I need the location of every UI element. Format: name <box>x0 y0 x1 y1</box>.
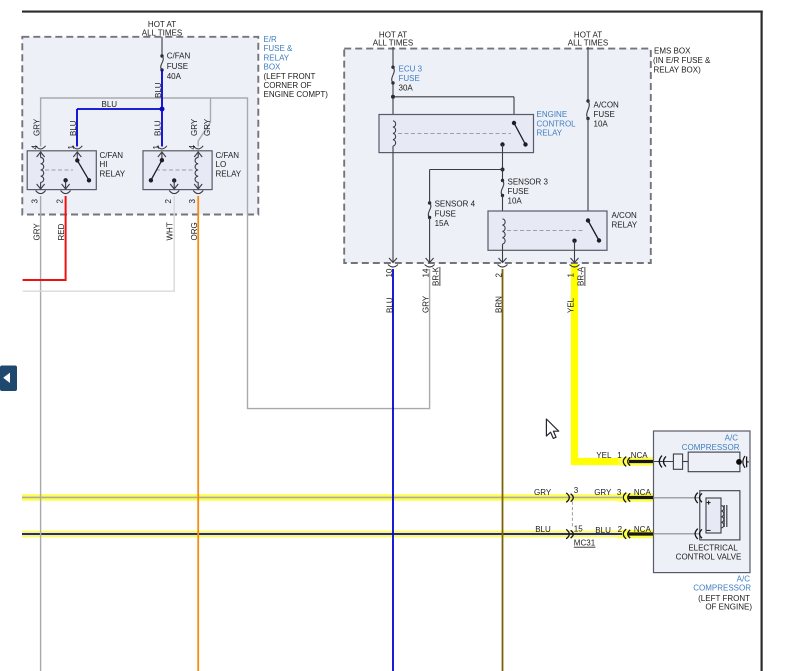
svg-text:ALL TIMES: ALL TIMES <box>142 29 182 38</box>
wire sensor 3 fuse to A/CON relay coil <box>502 196 504 219</box>
GRY net: EMS pin 14 to C/FAN relay coils (wire) <box>41 98 430 409</box>
svg-text:GRY: GRY <box>534 488 552 497</box>
node: HOT AT ALL TIMES label (ECU 3 fuse) <box>373 31 413 48</box>
svg-text:(LEFT FRONT: (LEFT FRONT <box>264 72 316 81</box>
connector MC31 on BLU row <box>566 529 573 538</box>
svg-text:NCA: NCA <box>634 488 652 497</box>
svg-text:10A: 10A <box>594 120 609 129</box>
svg-text:BLU: BLU <box>102 100 118 109</box>
svg-text:ORG: ORG <box>190 222 199 240</box>
wire from HOT AT ALL TIMES to C/FAN fuse <box>161 37 163 56</box>
wire BLU highlighted row to A/C compressor <box>22 531 654 538</box>
wire BLU from C/FAN fuse to relays <box>77 70 163 147</box>
wire to A/CON fuse <box>587 47 589 101</box>
wire branch to sensor 4 fuse <box>430 170 503 204</box>
fuse ECU 3 FUSE 30A <box>391 65 422 93</box>
svg-text:GRY: GRY <box>203 118 212 136</box>
svg-text:HI: HI <box>100 160 108 169</box>
svg-text:FUSE &: FUSE & <box>264 44 294 53</box>
svg-text:FUSE: FUSE <box>399 74 420 83</box>
wire labels above C/FAN relays <box>33 118 212 136</box>
svg-text:BOX: BOX <box>264 63 282 72</box>
svg-text:3: 3 <box>617 488 622 497</box>
fuse SENSOR 4 FUSE 15A <box>428 200 476 228</box>
svg-text:C/FAN: C/FAN <box>167 52 191 61</box>
svg-text:14: 14 <box>422 268 431 277</box>
electrical control valve <box>654 491 742 562</box>
svg-text:CONTROL VALVE: CONTROL VALVE <box>676 553 742 562</box>
svg-text:COMPRESSOR: COMPRESSOR <box>682 443 740 452</box>
relay ENGINE CONTROL RELAY <box>379 110 576 153</box>
svg-text:WHT: WHT <box>166 222 175 240</box>
wire GRY from C/FAN HI relay pin 3 down <box>40 196 42 671</box>
compressor clutch circuit (row 1 internals) <box>654 452 749 472</box>
svg-text:A/C: A/C <box>737 575 751 584</box>
svg-text:BR-A: BR-A <box>577 266 586 286</box>
svg-text:CORNER OF: CORNER OF <box>264 81 312 90</box>
EMS pin 10 <box>385 258 398 313</box>
switch pin1-pin2 <box>76 152 78 160</box>
svg-text:A/C: A/C <box>725 434 739 443</box>
svg-text:FUSE: FUSE <box>167 62 188 71</box>
labels on GRY row <box>534 486 651 497</box>
labels on YEL row <box>596 451 648 460</box>
connector MC31 dashed link and label <box>572 502 595 548</box>
svg-text:ENGINE COMPT): ENGINE COMPT) <box>264 90 329 99</box>
fuse SENSOR 3 FUSE 10A <box>501 177 549 205</box>
svg-text:15: 15 <box>574 524 583 533</box>
labels on BLU row <box>535 524 651 535</box>
svg-text:BLU: BLU <box>154 82 163 98</box>
relay C/FAN LO RELAY <box>143 145 242 204</box>
svg-text:OF ENGINE): OF ENGINE) <box>705 603 752 612</box>
svg-text:3: 3 <box>574 486 579 495</box>
svg-text:NCA: NCA <box>634 525 652 534</box>
svg-text:SENSOR 3: SENSOR 3 <box>508 177 549 186</box>
E/R fuse & relay box label <box>264 35 329 99</box>
svg-text:RELAY: RELAY <box>100 169 126 178</box>
svg-text:LO: LO <box>216 160 227 169</box>
svg-text:RELAY: RELAY <box>537 129 563 138</box>
fuse A/CON FUSE 10A <box>586 99 619 128</box>
svg-text:C/FAN: C/FAN <box>216 151 240 160</box>
svg-text:FUSE: FUSE <box>594 110 615 119</box>
wire BLU from EMS pin 10 down <box>392 269 394 671</box>
node: HOT AT ALL TIMES label (A/CON fuse) <box>568 31 608 48</box>
svg-text:3: 3 <box>188 199 197 204</box>
wire fuse to engine control relay <box>393 83 514 123</box>
svg-text:RELAY BOX): RELAY BOX) <box>654 66 702 75</box>
svg-text:BLU: BLU <box>535 525 551 534</box>
coil pin4-pin3 <box>197 152 199 158</box>
svg-text:HOT AT: HOT AT <box>148 20 176 29</box>
fuse C/FAN FUSE 40A <box>160 52 190 81</box>
svg-text:BLU: BLU <box>154 120 163 136</box>
svg-text:10: 10 <box>385 268 394 277</box>
svg-text:RELAY: RELAY <box>612 221 638 230</box>
relay C/FAN HI RELAY <box>27 145 126 204</box>
svg-text:MC31: MC31 <box>574 538 596 547</box>
wire engine control relay output <box>502 145 504 181</box>
A/C compressor box <box>654 431 751 573</box>
svg-text:3: 3 <box>31 199 40 204</box>
svg-text:2: 2 <box>618 525 623 534</box>
EMS pin 1 <box>567 258 586 313</box>
svg-text:RELAY: RELAY <box>216 169 242 178</box>
svg-text:GRY: GRY <box>33 118 42 136</box>
wire RED from C/FAN HI relay pin 2 <box>23 196 66 280</box>
svg-text:GRY: GRY <box>422 295 431 313</box>
node: HOT AT ALL TIMES label (C/FAN fuse) <box>142 20 182 38</box>
svg-text:4: 4 <box>188 145 197 150</box>
svg-text:BLU: BLU <box>595 526 611 535</box>
svg-text:SENSOR 4: SENSOR 4 <box>435 200 476 209</box>
connector at compressor BLU row <box>623 529 630 539</box>
pin connector arcs <box>36 146 46 149</box>
svg-text:BR-K: BR-K <box>432 266 441 286</box>
connector at compressor GRY row <box>623 493 630 503</box>
svg-text:10A: 10A <box>508 197 523 206</box>
svg-text:C/FAN: C/FAN <box>100 151 124 160</box>
svg-text:ALL TIMES: ALL TIMES <box>568 39 608 48</box>
svg-text:BRN: BRN <box>495 296 504 313</box>
svg-text:15A: 15A <box>435 219 450 228</box>
page right border <box>760 11 762 671</box>
svg-text:EMS BOX: EMS BOX <box>654 47 691 56</box>
svg-text:1: 1 <box>67 145 76 150</box>
svg-text:BLU: BLU <box>69 120 78 136</box>
svg-text:YEL: YEL <box>567 297 576 313</box>
connector MC31 on GRY row <box>566 493 573 502</box>
svg-text:40A: 40A <box>167 72 182 81</box>
svg-text:GRY: GRY <box>594 488 612 497</box>
svg-text:CONTROL: CONTROL <box>537 119 577 128</box>
E/R fuse & relay box (dashed enclosure) <box>22 37 258 215</box>
page top border <box>22 11 763 13</box>
svg-text:NCA: NCA <box>631 451 649 460</box>
wire GRY highlighted row to A/C compressor <box>22 494 654 501</box>
wire BRN from EMS pin 2 down <box>502 269 504 671</box>
relay A/CON RELAY <box>488 211 638 250</box>
connector at compressor YEL row <box>623 457 630 467</box>
node junction below engine control relay <box>501 168 505 172</box>
svg-text:BLU: BLU <box>386 297 395 313</box>
svg-text:4: 4 <box>31 145 40 150</box>
svg-text:ELECTRICAL: ELECTRICAL <box>688 544 738 553</box>
svg-text:A/CON: A/CON <box>612 211 638 220</box>
svg-text:2: 2 <box>164 199 173 204</box>
svg-text:ALL TIMES: ALL TIMES <box>373 39 413 48</box>
svg-text:GRY: GRY <box>190 118 199 136</box>
EMS pin 2 <box>495 258 508 313</box>
wire labels below C/FAN relays <box>33 222 200 240</box>
pin connector arcs <box>157 146 167 149</box>
wire A/CON relay output to EMS pin 1 <box>574 241 576 263</box>
wire A/CON relay coil to EMS pin 2 <box>502 244 504 262</box>
wire ORG from C/FAN LO relay pin 3 down <box>197 196 199 671</box>
svg-text:2: 2 <box>56 199 65 204</box>
wire to ECU 3 fuse <box>392 47 394 68</box>
svg-text:(IN E/R FUSE &: (IN E/R FUSE & <box>653 56 711 65</box>
svg-text:YEL: YEL <box>596 451 612 460</box>
node junction on BLU wire <box>160 107 165 112</box>
wire WHT from C/FAN LO relay pin 2 <box>23 196 175 291</box>
svg-text:1: 1 <box>617 451 622 460</box>
EMS box label <box>653 47 711 75</box>
svg-text:GRY: GRY <box>33 223 42 241</box>
svg-text:COMPRESSOR: COMPRESSOR <box>693 584 751 593</box>
coil pin4-pin3 <box>40 152 42 158</box>
svg-text:RED: RED <box>57 223 66 240</box>
mouse cursor <box>546 419 558 438</box>
wire A/CON fuse to A/CON relay <box>587 119 589 221</box>
node junction below ECU 3 fuse <box>391 95 395 99</box>
wire engine control relay coil to EMS pin 10 <box>392 146 394 262</box>
EMS pin 14 <box>422 258 441 313</box>
switch pin1-pin2 <box>161 152 163 160</box>
svg-text:E/R: E/R <box>264 35 278 44</box>
svg-text:1: 1 <box>567 273 576 278</box>
svg-text:FUSE: FUSE <box>435 209 456 218</box>
svg-text:1: 1 <box>152 145 161 150</box>
svg-text:2: 2 <box>495 273 504 278</box>
svg-text:RELAY: RELAY <box>264 53 290 62</box>
svg-text:ENGINE: ENGINE <box>537 110 568 119</box>
svg-text:A/CON: A/CON <box>594 101 620 110</box>
wire sensor 4 fuse to EMS pin 14 <box>429 218 431 263</box>
navigation back button <box>0 366 17 392</box>
svg-text:ECU 3: ECU 3 <box>399 65 423 74</box>
A/C compressor label below box <box>693 575 752 612</box>
wire YEL highlighted from EMS pin 1 to A/C compressor <box>575 264 654 462</box>
svg-text:30A: 30A <box>399 84 414 93</box>
svg-text:FUSE: FUSE <box>508 187 529 196</box>
EMS box (dashed enclosure) <box>344 49 651 263</box>
